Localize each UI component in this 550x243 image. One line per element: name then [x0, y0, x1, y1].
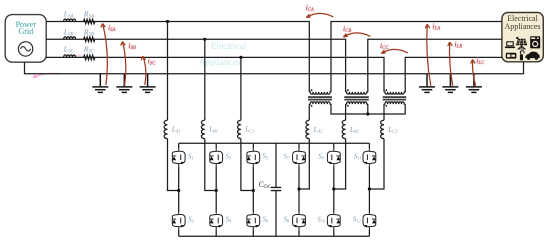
ghost pink swoosh through Grid text: [8, 29, 44, 33]
ground 3 left: [140, 74, 156, 93]
node dot star bus T2: [366, 112, 369, 115]
current arrow iCA: [306, 13, 333, 17]
inductor LC2: [381, 120, 384, 138]
inductor LA2: [306, 120, 309, 138]
node dot leg5 midpoint: [332, 187, 335, 190]
inductor LB2: [342, 120, 345, 138]
ground 3 right: [466, 74, 482, 93]
wire T2 secondary to LB2: [345, 105, 347, 121]
wire neutral: [25, 62, 524, 74]
transistor S12: [363, 212, 376, 229]
inductor LC1: [237, 120, 240, 138]
svg-text:Appliances: Appliances: [505, 22, 541, 31]
ghost pink marks near iSC: [76, 55, 85, 58]
ground 1 left: [92, 74, 108, 93]
transistor S8: [293, 212, 306, 229]
inductor LA1: [164, 120, 167, 138]
leg 1 vertical: [178, 143, 180, 236]
current arrow iLB: [448, 42, 453, 86]
electrical appliances box: [502, 13, 543, 62]
power grid box: [5, 15, 46, 63]
ghost pink arc below grid box: [33, 73, 58, 77]
ground 2 right: [442, 74, 458, 93]
current arrow iCB: [343, 33, 370, 37]
transistor S9: [327, 149, 340, 166]
resistor RSC: [84, 55, 95, 59]
current arrow iSB: [121, 42, 126, 86]
node dot line A shunt tap: [166, 20, 169, 23]
inductor LB1: [201, 120, 204, 138]
svg-text:Electrical: Electrical: [211, 42, 247, 52]
icon solar panel: [516, 37, 527, 49]
resistor RSA: [84, 19, 95, 23]
transistor S10: [327, 212, 340, 229]
leg 3 vertical: [252, 143, 254, 236]
icon laptop: [505, 41, 515, 48]
transformer T2: [344, 92, 369, 105]
wire LB1 to leg2 midpoint: [205, 139, 216, 191]
transformer T3: [383, 92, 407, 105]
wire line A right: [331, 22, 502, 92]
wire T1 secondary to LA2: [308, 105, 310, 121]
wire line A left: [46, 22, 309, 92]
inductor LSA: [64, 19, 76, 22]
node dot leg3 midpoint: [252, 189, 255, 192]
icon battery: [506, 53, 517, 59]
current arrow iCC: [381, 49, 408, 53]
icon washing machine: [530, 36, 540, 48]
inductor LSB: [64, 37, 76, 40]
wire line B right: [368, 39, 502, 91]
node dot line C shunt tap: [239, 56, 242, 59]
node dot line B shunt tap: [203, 38, 206, 41]
wire T3 secondary to LC2: [383, 105, 385, 121]
wire LA1 to leg1 midpoint: [168, 139, 179, 191]
node dot leg4 midpoint: [297, 187, 300, 190]
transistor S2: [172, 212, 185, 229]
ghost text artifact: [199, 42, 247, 68]
wire LC2 to leg6 midpoint: [369, 139, 384, 189]
wire LA2 to leg4 midpoint: [299, 139, 309, 189]
leg 5 vertical: [333, 143, 335, 236]
wire shunt drop phase C: [240, 57, 242, 120]
ground 1 right: [419, 74, 435, 93]
wire line C right: [405, 57, 502, 91]
transistor S5: [247, 149, 260, 166]
current arrow iSA: [101, 24, 108, 86]
node dot leg2 midpoint: [215, 189, 218, 192]
current arrow iLA: [425, 24, 431, 86]
wire secondary star bus: [331, 105, 405, 115]
capacitor CDC: [275, 143, 277, 236]
svg-text:Grid: Grid: [18, 27, 33, 36]
wire shunt drop phase A: [167, 22, 169, 121]
transistor S3: [210, 149, 223, 166]
wire line B left: [46, 39, 345, 91]
transistor S6: [247, 212, 260, 229]
leg 4 vertical: [298, 143, 300, 236]
transformer T1: [308, 92, 332, 105]
wire DC bottom bus: [179, 235, 370, 237]
AC source symbol: [18, 42, 32, 56]
inductor LSC: [64, 55, 76, 58]
transistor S11: [363, 149, 376, 166]
transistor S1: [172, 149, 185, 166]
wire DC top bus: [179, 142, 370, 144]
node dot leg1 midpoint: [177, 189, 180, 192]
current arrow iSC: [141, 56, 146, 85]
ground 2 left: [116, 74, 132, 93]
leg 2 vertical: [215, 143, 217, 236]
current arrow iLC: [471, 60, 476, 86]
icon ev charger and car: [520, 51, 540, 60]
wire LB2 to leg5 midpoint: [334, 139, 346, 189]
wire line C left: [46, 57, 384, 91]
leg 6 vertical: [368, 143, 370, 236]
wire LC1 to leg3 midpoint: [241, 139, 253, 191]
transistor S7: [293, 149, 306, 166]
transistor S4: [210, 212, 223, 229]
node dot leg6 midpoint: [368, 187, 371, 190]
resistor RSB: [84, 37, 95, 41]
wire shunt drop phase B: [204, 39, 206, 120]
